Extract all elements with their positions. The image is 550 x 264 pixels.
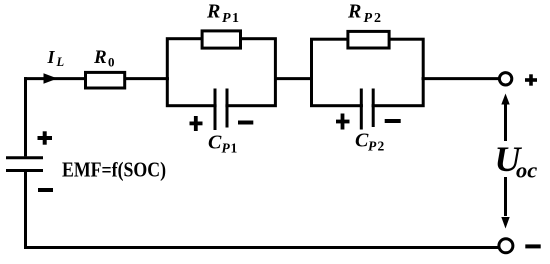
svg-text:C: C bbox=[208, 132, 222, 154]
svg-text:0: 0 bbox=[108, 55, 115, 70]
svg-text:R: R bbox=[93, 47, 107, 68]
svg-text:R: R bbox=[206, 1, 220, 23]
svg-text:R: R bbox=[347, 1, 361, 23]
svg-text:C: C bbox=[355, 130, 369, 152]
svg-text:I: I bbox=[47, 47, 56, 67]
svg-text:EMF=f(SOC): EMF=f(SOC) bbox=[62, 158, 166, 182]
svg-text:L: L bbox=[56, 55, 65, 69]
svg-text:1: 1 bbox=[231, 141, 238, 156]
svg-text:P: P bbox=[222, 11, 231, 26]
svg-text:P: P bbox=[364, 11, 373, 26]
svg-text:P: P bbox=[222, 141, 231, 156]
svg-text:oc: oc bbox=[516, 158, 537, 183]
svg-text:P: P bbox=[368, 139, 377, 154]
svg-text:2: 2 bbox=[374, 11, 381, 26]
svg-text:1: 1 bbox=[232, 11, 239, 26]
svg-text:2: 2 bbox=[378, 139, 385, 154]
